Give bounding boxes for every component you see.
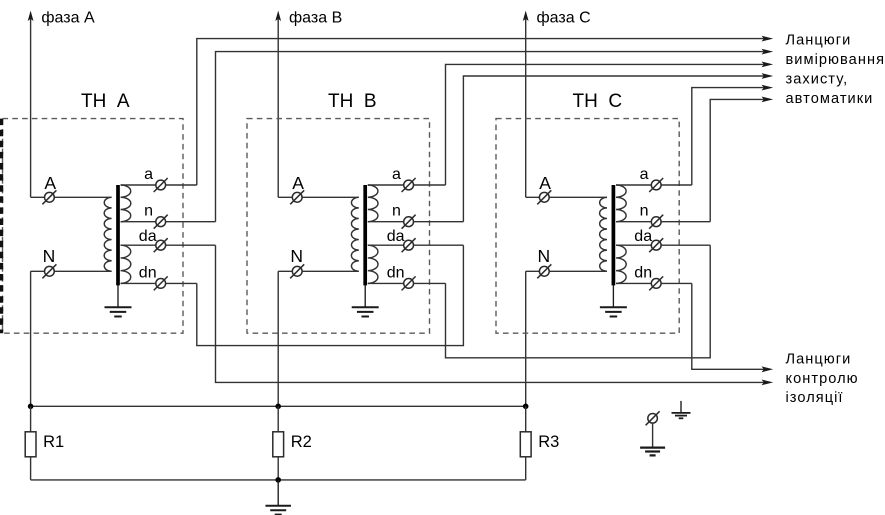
label фаза С (537, 10, 591, 27)
label A terminal ТН С (539, 173, 551, 193)
svg-text:фаза С: фаза С (537, 10, 591, 27)
svg-text:n: n (640, 202, 649, 219)
wire da of ТН В (368, 244, 464, 246)
svg-text:R1: R1 (43, 433, 64, 451)
svg-text:ТН В: ТН В (328, 91, 377, 112)
wire R1 bottom stub (30, 457, 32, 480)
wire R3 bottom stub (525, 457, 527, 480)
label N terminal ТН С (538, 246, 551, 266)
terminal dn of ТН В (402, 276, 416, 290)
wire ТН А n to measurement circuits (216, 49, 774, 222)
label da terminal ТН В (387, 228, 405, 245)
wire ТН С n to measurement circuits (710, 97, 773, 222)
terminal a of ТН А (154, 178, 168, 192)
label dn terminal ТН А (139, 264, 157, 281)
core of ТН В (363, 185, 367, 285)
svg-text:контролю: контролю (786, 371, 859, 387)
svg-text:ізоляції: ізоляції (786, 390, 844, 406)
svg-text:A: A (292, 173, 304, 193)
svg-text:da: da (139, 228, 157, 245)
svg-text:a: a (392, 166, 401, 183)
terminal da of ТН А (154, 238, 168, 252)
label dn terminal ТН С (634, 264, 652, 281)
svg-text:n: n (392, 202, 401, 219)
secondary winding a-n ТН С (616, 185, 626, 222)
svg-text:N: N (290, 246, 303, 266)
wire phase А neutral drop (30, 271, 32, 406)
wire bottom ground bus (31, 479, 526, 481)
svg-text:dn: dn (634, 264, 652, 281)
wire primary A of ТН В (278, 196, 359, 198)
label ТН С (573, 91, 623, 112)
svg-text:A: A (44, 173, 56, 193)
svg-text:ТН А: ТН А (81, 91, 130, 112)
label R3 (538, 433, 559, 451)
node junction ground bus (275, 477, 281, 483)
resistor R3 (520, 432, 531, 457)
wire dn of ТН С (616, 282, 692, 284)
wire ТН А dn to ТН В da (197, 245, 464, 345)
wire n of ТН В (368, 221, 464, 223)
svg-text:вимірювання,: вимірювання, (786, 52, 885, 68)
svg-text:n: n (144, 202, 153, 219)
wire dn of ТН В (368, 282, 446, 284)
terminal A of ТН С (537, 190, 551, 204)
wire legend terminal to ground (652, 423, 654, 447)
phase arrow фаза С (523, 11, 529, 198)
svg-text:a: a (144, 166, 153, 183)
svg-text:захисту,: захисту, (786, 72, 849, 88)
ground of resistor bus (265, 480, 291, 515)
wire R1 top stub (30, 406, 32, 432)
svg-text:автоматики: автоматики (786, 91, 874, 107)
terminal dn of ТН С (649, 276, 663, 290)
terminal dn of ТН А (154, 276, 168, 290)
svg-text:dn: dn (387, 264, 405, 281)
svg-text:da: da (634, 228, 652, 245)
terminal n of ТН В (402, 215, 416, 229)
wire R2 top stub (277, 406, 279, 432)
svg-text:dn: dn (139, 264, 157, 281)
label ТН В (328, 91, 377, 112)
svg-text:фаза А: фаза А (41, 10, 95, 27)
svg-text:ТН С: ТН С (573, 91, 623, 112)
label a terminal ТН С (640, 166, 649, 183)
svg-text:R2: R2 (291, 433, 312, 451)
core of ТН С (612, 185, 616, 285)
terminal da of ТН С (649, 238, 663, 252)
label n terminal ТН В (392, 202, 401, 219)
label Ланцюги вимірювання захисту автоматики (786, 33, 885, 107)
wire n of ТН С (616, 221, 710, 223)
wire ТН В a to measurement circuits (446, 62, 774, 186)
label n terminal ТН А (144, 202, 153, 219)
phase arrow фаза В (275, 11, 281, 198)
ground of ТН В core (352, 285, 379, 316)
wire a of ТН В (368, 184, 446, 186)
terminal A of ТН В (290, 190, 304, 204)
label da terminal ТН А (139, 228, 157, 245)
label n terminal ТН С (640, 202, 649, 219)
wire ТН С dn to insulation control (692, 283, 773, 372)
wire ТН С a to measurement circuits (692, 85, 773, 185)
resistor R1 (25, 432, 36, 457)
wire da of ТН А (121, 244, 216, 246)
wire ТН А a to measurement circuits (197, 36, 773, 185)
wire R2 bottom stub (277, 457, 279, 480)
terminal n of ТН С (649, 215, 663, 229)
terminal N of ТН А (42, 264, 56, 278)
wire primary N of ТН А (31, 270, 112, 272)
thick dashed left edge of ТН А box (0, 119, 3, 334)
secondary winding a-n ТН А (121, 185, 131, 222)
label Ланцюги контролю ізоляції (786, 351, 859, 406)
wire phase С neutral drop (525, 271, 527, 406)
svg-text:Ланцюги: Ланцюги (786, 33, 852, 49)
terminal n of ТН А (154, 215, 168, 229)
node junction phase B bus (275, 404, 281, 410)
terminal a of ТН В (402, 178, 416, 192)
wire primary N of ТН В (278, 270, 359, 272)
wire dn of ТН А (121, 282, 197, 284)
svg-text:Ланцюги: Ланцюги (786, 351, 852, 367)
label R2 (291, 433, 312, 451)
wire ТН В dn to ТН С da (446, 245, 711, 358)
terminal da of ТН В (402, 238, 416, 252)
wire primary A of ТН А (31, 196, 112, 198)
ground of ТН С core (600, 285, 627, 316)
wire da of ТН С (616, 244, 710, 246)
svg-text:N: N (43, 246, 56, 266)
dashed enclosure ТН С (496, 119, 679, 334)
label фаза А (41, 10, 95, 27)
ground legend large (640, 447, 665, 455)
svg-text:фаза В: фаза В (289, 10, 342, 27)
secondary winding da-dn ТН А (121, 245, 131, 283)
secondary winding da-dn ТН В (368, 245, 378, 283)
svg-text:R3: R3 (538, 433, 559, 451)
node junction phase A bus (28, 404, 34, 410)
svg-text:a: a (640, 166, 649, 183)
label фаза В (289, 10, 342, 27)
node junction phase C bus (523, 404, 529, 410)
dashed enclosure ТН В (247, 119, 430, 334)
svg-text:da: da (387, 228, 405, 245)
label A terminal ТН В (292, 173, 304, 193)
secondary winding a-n ТН В (368, 185, 378, 222)
label dn terminal ТН В (387, 264, 405, 281)
terminal A of ТН А (42, 190, 56, 204)
label a terminal ТН В (392, 166, 401, 183)
dashed enclosure ТН А (3, 119, 184, 334)
primary winding ТН В (351, 197, 358, 271)
label da terminal ТН С (634, 228, 652, 245)
terminal earthing legend (646, 411, 660, 425)
ground of ТН А core (105, 285, 132, 316)
core of ТН А (116, 185, 120, 285)
label a terminal ТН А (144, 166, 153, 183)
terminal N of ТН С (537, 264, 551, 278)
ground legend small (672, 401, 691, 418)
wire n of ТН А (121, 221, 216, 223)
primary winding ТН С (600, 197, 607, 271)
wire phase В neutral drop (277, 271, 279, 406)
label A terminal ТН А (44, 173, 56, 193)
wire ТН А da to insulation control (216, 245, 774, 385)
svg-text:A: A (539, 173, 551, 193)
terminal a of ТН С (649, 178, 663, 192)
label ТН А (81, 91, 130, 112)
wire ТН В n to measurement circuits (463, 73, 773, 222)
label R1 (43, 433, 64, 451)
terminal N of ТН В (290, 264, 304, 278)
wire primary N of ТН С (526, 270, 607, 272)
wire primary A of ТН С (526, 196, 607, 198)
label N terminal ТН В (290, 246, 303, 266)
wire a of ТН А (121, 184, 197, 186)
secondary winding da-dn ТН С (616, 245, 626, 283)
wire R3 top stub (525, 406, 527, 432)
primary winding ТН А (104, 197, 111, 271)
svg-text:N: N (538, 246, 551, 266)
wire a of ТН С (616, 184, 692, 186)
wire resistor bus (31, 405, 526, 407)
label N terminal ТН А (43, 246, 56, 266)
phase arrow фаза А (28, 11, 34, 198)
resistor R2 (273, 432, 284, 457)
